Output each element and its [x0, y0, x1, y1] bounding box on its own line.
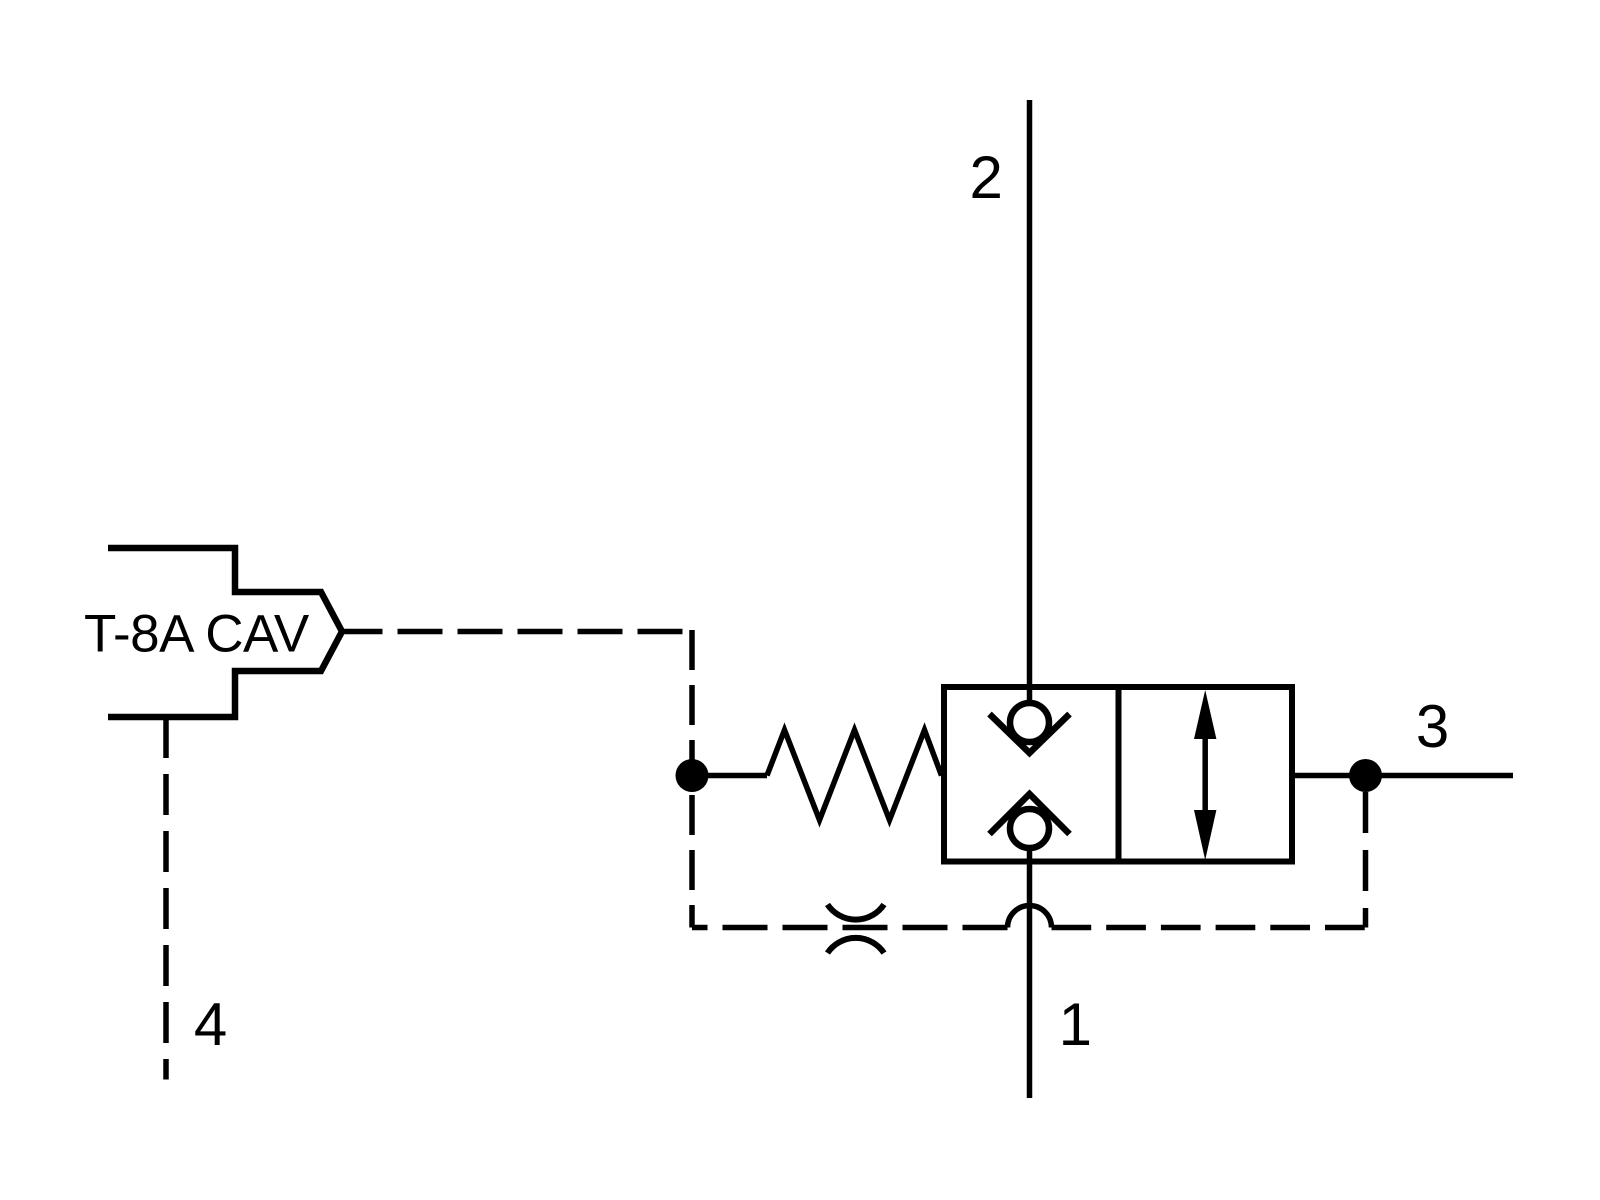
port 3 line [1292, 773, 1513, 779]
port 2 line [1027, 100, 1033, 705]
flow arrow upper head [1194, 690, 1216, 739]
svg-text:1: 1 [1059, 991, 1092, 1058]
pilot dashed bottom run right of hop [1052, 925, 1366, 931]
valve body envelope [944, 687, 1292, 862]
valve body divider [1116, 687, 1122, 862]
check valve upper circle [1010, 703, 1049, 742]
orifice restriction bottom arc [828, 938, 885, 953]
pilot dashed vertical from node B [1363, 792, 1369, 928]
check valve lower circle [1010, 809, 1049, 848]
orifice restriction top arc [828, 905, 885, 920]
svg-text:2: 2 [970, 144, 1003, 211]
crossover hop over port 1 line [1008, 906, 1052, 928]
spring [767, 730, 942, 820]
check valve lower seat chevron [990, 794, 1070, 834]
pilot line dashed vertical left (corner to bottom run) [689, 630, 695, 928]
svg-text:3: 3 [1416, 693, 1449, 760]
cavity T-8A CAV outline [108, 548, 342, 717]
junction node B on port 3 line [1349, 759, 1382, 792]
junction node A (pilot/spring) [676, 759, 709, 792]
pilot dashed bottom run left of hop [692, 925, 1008, 931]
svg-text:4: 4 [194, 991, 227, 1058]
check valve upper seat chevron [990, 714, 1070, 753]
wire node A to spring [692, 773, 767, 779]
port 1 line [1027, 848, 1033, 1098]
drain line dashed vertical from cavity port 4 [163, 717, 169, 1080]
pilot line dashed horizontal to corner [383, 629, 693, 635]
flow arrow lower head [1194, 810, 1216, 860]
flow arrow shaft [1202, 735, 1208, 814]
pilot stub from cavity tip [342, 629, 383, 635]
svg-text:T-8A CAV: T-8A CAV [84, 604, 310, 663]
